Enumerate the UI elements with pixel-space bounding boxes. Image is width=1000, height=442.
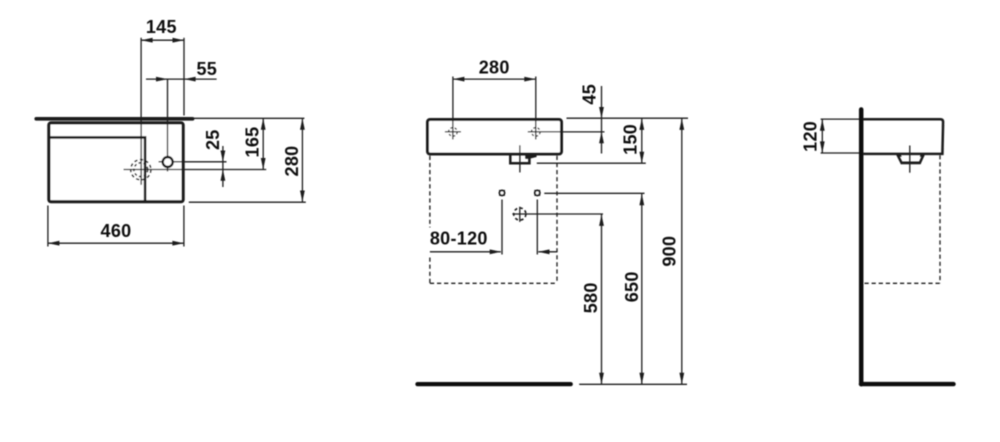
dim 650 line xyxy=(639,194,644,385)
svg-text:45: 45 xyxy=(579,84,599,105)
svg-text:150: 150 xyxy=(620,124,640,155)
label 460 xyxy=(101,221,132,241)
label 280 front xyxy=(479,57,510,77)
tap hole vertical centerline / ext 55 xyxy=(167,79,169,171)
wall/shelf thick line xyxy=(36,117,192,121)
tap hole horizontal centerline / ref 25 xyxy=(159,161,227,163)
drain vertical centerline / ext line 145 xyxy=(140,38,142,185)
basin inner bowl outline xyxy=(50,137,145,200)
siphon centerline (front) xyxy=(519,145,521,172)
hidden zone dashed left vertical xyxy=(429,156,431,283)
svg-text:55: 55 xyxy=(196,59,217,79)
siphon outlet wedge (front) xyxy=(525,154,536,159)
svg-text:80-120: 80-120 xyxy=(430,228,488,248)
floor line (front, thick) xyxy=(418,382,571,386)
label 45 xyxy=(579,84,599,105)
svg-text:280: 280 xyxy=(282,146,302,177)
svg-text:120: 120 xyxy=(800,121,820,152)
wall thick vertical xyxy=(859,110,864,385)
top ext line (plan right) xyxy=(194,117,305,119)
dim 25 line xyxy=(221,146,226,187)
dim 80-120 line xyxy=(430,249,557,254)
svg-text:650: 650 xyxy=(622,271,642,302)
siphon outline (front) xyxy=(510,155,529,164)
label 120 xyxy=(800,121,820,152)
hidden zone dashed bottom xyxy=(430,282,557,284)
top ext line (front right) xyxy=(567,117,689,119)
dim 580 line xyxy=(599,214,604,384)
dim 120 line xyxy=(820,119,825,153)
floor ext line (front, thin) xyxy=(579,383,687,385)
left tap ext vertical xyxy=(452,77,454,140)
basin outer rectangle xyxy=(49,123,183,202)
right tap ext vertical xyxy=(535,77,537,140)
siphon trapezoid (side) xyxy=(897,155,923,163)
label 900 xyxy=(659,236,679,267)
label 280 plan xyxy=(282,146,302,177)
label 25 xyxy=(203,129,223,150)
front body rectangle xyxy=(428,120,562,155)
left tap hole centerline xyxy=(445,131,461,133)
drain outer dashed circle xyxy=(131,160,151,180)
dim 900 line xyxy=(679,118,684,384)
left tap hole dashed circle xyxy=(449,128,458,137)
drain level ext line (front) xyxy=(512,213,603,215)
svg-text:900: 900 xyxy=(659,236,679,267)
side body outline xyxy=(863,119,943,154)
drain horizontal centerline xyxy=(124,169,267,171)
label 580 xyxy=(581,282,601,313)
label 165 xyxy=(242,127,262,158)
dim 150 line xyxy=(639,118,644,163)
svg-text:25: 25 xyxy=(203,129,223,150)
right tap hole dashed circle xyxy=(532,128,541,137)
svg-text:280: 280 xyxy=(479,57,510,77)
svg-text:460: 460 xyxy=(101,221,132,241)
svg-text:165: 165 xyxy=(242,127,262,158)
ext line right of 145/55 xyxy=(183,38,185,116)
siphon corner accents (side) xyxy=(896,154,925,157)
siphon bottom thick (side) xyxy=(901,161,921,164)
dim 165 line xyxy=(261,118,266,169)
label 145 xyxy=(146,17,177,37)
hidden dashed vertical (side) xyxy=(939,155,941,283)
dim 280 line (plan) xyxy=(300,118,305,202)
floor thick line (side) xyxy=(861,382,954,386)
svg-text:580: 580 xyxy=(581,282,601,313)
right fixing hole xyxy=(535,190,541,196)
bottom ext line (plan right) xyxy=(189,201,306,203)
dim 145 line xyxy=(141,38,184,43)
svg-text:145: 145 xyxy=(146,17,177,37)
dim 55 line xyxy=(146,77,217,82)
siphon level ext line xyxy=(537,162,646,164)
ext lines 460 xyxy=(48,206,184,247)
left fixing hole xyxy=(499,190,505,196)
label 650 xyxy=(622,271,642,302)
label 150 xyxy=(620,124,640,155)
dim 280 line (front) xyxy=(453,77,536,82)
hidden dashed horizontal (side) xyxy=(865,282,941,284)
label 80-120 xyxy=(430,228,488,248)
siphon centerline (side) xyxy=(909,146,911,173)
hidden zone dashed right vertical xyxy=(556,156,558,283)
drain dashed circle (front) xyxy=(514,208,526,220)
drain crosshair vertical (front) xyxy=(519,207,521,222)
fixing holes level ext line xyxy=(544,192,644,194)
dim 460 line xyxy=(48,241,184,246)
tap hole ring xyxy=(163,157,173,167)
fixing hole ext verticals xyxy=(502,200,537,255)
dim 45 line xyxy=(599,86,604,154)
ext lines 120 xyxy=(821,119,859,153)
label 55 xyxy=(196,59,217,79)
drain inner dashed circle xyxy=(134,163,148,177)
right tap hole centerline / ext 45 xyxy=(528,131,605,133)
